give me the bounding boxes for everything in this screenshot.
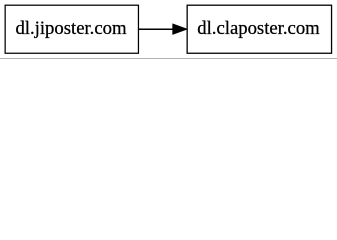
node dl.claposter.com (187, 5, 331, 53)
background (0, 0, 337, 59)
svg-text:dl.jiposter.com: dl.jiposter.com (15, 18, 127, 39)
svg-text:dl.claposter.com: dl.claposter.com (197, 18, 320, 39)
wire edge shaft (139, 28, 174, 30)
node dl.jiposter.com (5, 5, 138, 53)
horizontal rule (0, 58, 337, 59)
arrowhead (173, 24, 188, 35)
